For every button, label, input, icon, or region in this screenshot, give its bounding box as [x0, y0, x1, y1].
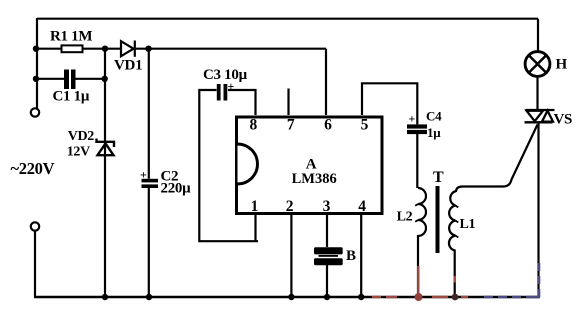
svg-text:1: 1: [251, 198, 259, 215]
svg-text:12V: 12V: [67, 145, 90, 160]
svg-text:4: 4: [358, 198, 366, 215]
svg-text:C3 10μ: C3 10μ: [203, 67, 248, 83]
svg-text:220μ: 220μ: [161, 181, 192, 197]
svg-text:6: 6: [324, 117, 332, 134]
svg-text:VS: VS: [554, 111, 573, 127]
svg-text:7: 7: [287, 117, 295, 134]
svg-text:5: 5: [361, 117, 369, 134]
svg-text:C4: C4: [426, 109, 442, 124]
svg-text:+: +: [409, 112, 416, 126]
svg-text:VD2: VD2: [68, 129, 95, 144]
svg-text:L2: L2: [397, 210, 413, 225]
svg-text:2: 2: [286, 198, 294, 215]
svg-text:8: 8: [250, 117, 258, 134]
svg-text:1μ: 1μ: [427, 125, 441, 140]
svg-text:A: A: [306, 156, 317, 172]
svg-text:+: +: [228, 79, 235, 93]
svg-text:~220V: ~220V: [11, 159, 55, 178]
svg-text:C1 1μ: C1 1μ: [53, 89, 90, 105]
svg-text:LM386: LM386: [292, 171, 337, 187]
svg-text:L1: L1: [460, 217, 476, 232]
svg-text:H: H: [556, 57, 568, 73]
svg-text:B: B: [346, 248, 356, 264]
svg-text:T: T: [433, 169, 444, 186]
svg-text:VD1: VD1: [114, 58, 142, 74]
svg-text:R1 1M: R1 1M: [50, 28, 92, 44]
svg-text:+: +: [140, 167, 147, 181]
svg-text:3: 3: [323, 198, 331, 215]
